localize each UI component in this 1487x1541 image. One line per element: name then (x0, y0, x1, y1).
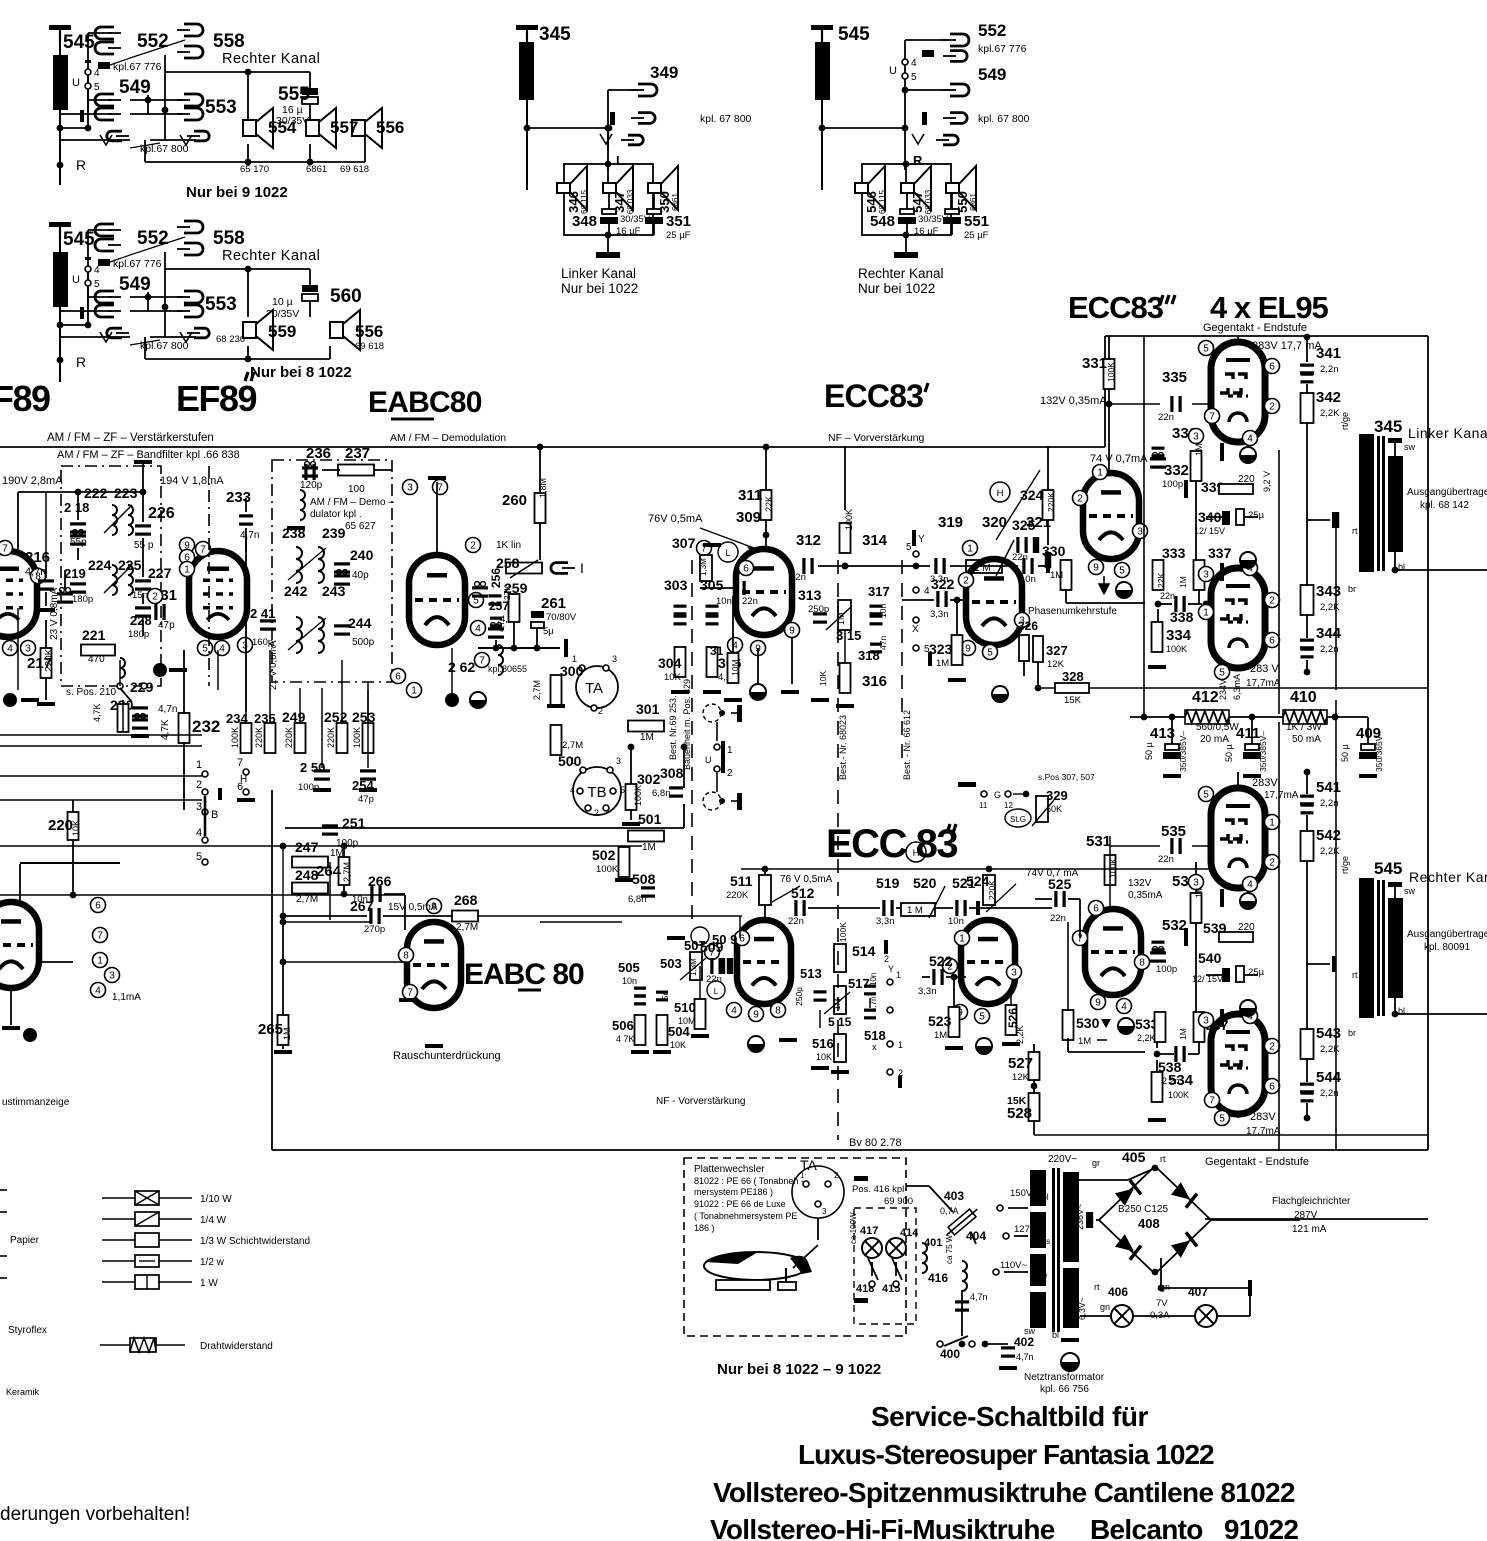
svg-text:1: 1 (967, 544, 973, 555)
svg-text:sw: sw (1404, 886, 1416, 896)
svg-text:316: 316 (862, 673, 887, 690)
svg-text:4,7n: 4,7n (240, 530, 259, 541)
svg-text:Best. - Nr. 66 612: Best. - Nr. 66 612 (902, 710, 912, 780)
svg-text:3,3n: 3,3n (876, 916, 895, 927)
svg-text:25 µF: 25 µF (666, 230, 691, 241)
svg-text:10K: 10K (664, 672, 682, 683)
svg-text:sw: sw (1024, 1326, 1036, 1336)
svg-text:186 ): 186 ) (694, 1223, 715, 1233)
svg-text:3: 3 (109, 971, 115, 982)
svg-text:68 236: 68 236 (216, 334, 245, 345)
svg-text:8: 8 (775, 1006, 781, 1017)
svg-text:s. Pos. 210: s. Pos. 210 (66, 687, 116, 698)
svg-text:3: 3 (1193, 432, 1199, 443)
svg-text:Service-Schaltbild für: Service-Schaltbild für (871, 1401, 1148, 1432)
svg-text:250p: 250p (794, 987, 804, 1006)
svg-text:1,1mA: 1,1mA (112, 992, 141, 1003)
svg-text:4: 4 (475, 624, 481, 635)
svg-text:194 V 1,8mA: 194 V 1,8mA (160, 475, 224, 487)
svg-text:514: 514 (852, 943, 876, 959)
svg-text:225: 225 (118, 557, 142, 573)
svg-text:AM / FM – Demodulation: AM / FM – Demodulation (390, 432, 506, 444)
svg-text:rt: rt (1160, 1154, 1166, 1164)
svg-text:558: 558 (213, 31, 245, 52)
svg-text:228: 228 (130, 613, 152, 628)
svg-text:4,7K: 4,7K (92, 703, 102, 722)
svg-text:5: 5 (979, 1012, 985, 1023)
svg-text:220K: 220K (284, 727, 294, 748)
svg-text:H: H (997, 488, 1004, 499)
svg-text:27K: 27K (502, 585, 512, 600)
svg-text:283V: 283V (1252, 777, 1278, 789)
svg-text:7: 7 (2, 544, 8, 555)
svg-text:St.G: St.G (1010, 815, 1026, 824)
svg-text:1: 1 (570, 756, 575, 766)
svg-text:3: 3 (616, 756, 621, 766)
svg-text:327: 327 (1046, 643, 1068, 658)
svg-text:68 033: 68 033 (626, 189, 635, 214)
svg-text:7: 7 (237, 757, 243, 769)
svg-text:Nur bei 1022: Nur bei 1022 (561, 281, 638, 296)
svg-text:417: 417 (860, 1225, 878, 1237)
svg-text:340: 340 (1198, 509, 1222, 525)
svg-text:1M: 1M (640, 732, 654, 743)
svg-text:rt: rt (1094, 1282, 1100, 1292)
svg-text:2: 2 (1269, 596, 1275, 607)
svg-text:22n: 22n (1158, 854, 1174, 865)
svg-text:17,7mA: 17,7mA (1264, 790, 1299, 801)
svg-text:317: 317 (868, 584, 890, 599)
svg-text:7: 7 (1209, 1096, 1215, 1107)
svg-text:10K: 10K (818, 671, 828, 686)
svg-text:6: 6 (95, 901, 101, 912)
svg-text:219: 219 (64, 566, 86, 581)
svg-text:560/0,5W: 560/0,5W (1196, 722, 1239, 733)
svg-text:6,8n: 6,8n (628, 894, 647, 905)
svg-text:5: 5 (94, 279, 100, 290)
svg-text:351: 351 (666, 213, 691, 230)
svg-text:1: 1 (196, 759, 202, 771)
svg-text:5 15: 5 15 (828, 1015, 852, 1029)
svg-text:6: 6 (743, 564, 749, 575)
svg-text:9: 9 (965, 644, 971, 655)
svg-text:220: 220 (48, 817, 73, 834)
svg-text:H: H (913, 848, 920, 859)
svg-text:120p: 120p (300, 480, 323, 491)
svg-text:12K: 12K (1012, 1072, 1030, 1083)
svg-text:TA: TA (585, 680, 603, 697)
svg-text:345: 345 (539, 24, 571, 45)
svg-text:4: 4 (94, 68, 100, 79)
svg-text:541: 541 (1316, 779, 1341, 796)
svg-text:rt: rt (1352, 970, 1358, 980)
svg-text:6: 6 (1269, 362, 1275, 373)
svg-text:ws: ws (1039, 1236, 1050, 1246)
svg-text:237: 237 (345, 445, 370, 462)
svg-text:247: 247 (295, 839, 319, 855)
svg-text:1: 1 (727, 745, 733, 756)
svg-text:22n: 22n (1012, 552, 1028, 563)
svg-text:4: 4 (219, 644, 225, 655)
svg-text:2,2K: 2,2K (1320, 602, 1340, 613)
svg-text:ECC83: ECC83 (824, 378, 923, 414)
svg-text:4: 4 (570, 785, 575, 795)
svg-text:4,7n: 4,7n (497, 616, 506, 632)
svg-text:L: L (725, 548, 730, 558)
svg-text:264: 264 (316, 863, 342, 880)
svg-text:3,3n: 3,3n (918, 986, 937, 997)
svg-text:326: 326 (1018, 619, 1038, 633)
svg-text:1/4 W: 1/4 W (200, 1215, 227, 1226)
svg-text:527: 527 (1008, 1055, 1033, 1072)
svg-text:314: 314 (862, 532, 888, 549)
svg-text:Flachgleichrichter: Flachgleichrichter (1272, 1196, 1351, 1207)
svg-text:0,7A: 0,7A (940, 1206, 959, 1216)
svg-text:242: 242 (284, 583, 308, 599)
svg-text:532: 532 (1162, 917, 1187, 934)
svg-text:5: 5 (906, 542, 912, 553)
svg-text:522: 522 (929, 953, 953, 969)
svg-text:Luxus-Stereosuper Fantasia 102: Luxus-Stereosuper Fantasia 1022 (798, 1439, 1214, 1470)
svg-text:350/365V–: 350/365V– (1374, 731, 1384, 772)
svg-text:403: 403 (944, 1189, 964, 1203)
svg-text:9: 9 (753, 1010, 759, 1021)
svg-text:503: 503 (660, 956, 682, 971)
svg-text:68 033: 68 033 (924, 189, 933, 214)
svg-text:70/80V: 70/80V (546, 612, 577, 623)
svg-text:16 µF: 16 µF (914, 226, 939, 237)
svg-text:100p: 100p (1162, 479, 1183, 490)
svg-text:25 µF: 25 µF (964, 230, 989, 241)
svg-text:4,7n: 4,7n (158, 704, 177, 715)
svg-text:348: 348 (572, 213, 597, 230)
svg-text:6,8n: 6,8n (652, 788, 671, 799)
svg-text:410: 410 (1290, 689, 1317, 706)
svg-text:Gegentakt - Endstufe: Gegentakt - Endstufe (1205, 1156, 1309, 1168)
svg-text:ECC 83: ECC 83 (826, 822, 957, 866)
svg-text:Best. Nr.69 253.: Best. Nr.69 253. (668, 695, 678, 760)
svg-text:1K / 3W: 1K / 3W (1286, 722, 1322, 733)
svg-text:1: 1 (411, 686, 417, 697)
svg-text:100K: 100K (1168, 1090, 1189, 1100)
svg-text:rt/ge: rt/ge (1340, 856, 1350, 874)
svg-text:30/35V: 30/35V (620, 214, 651, 225)
svg-text:25µ: 25µ (1248, 967, 1265, 978)
svg-text:EABC 80: EABC 80 (464, 958, 584, 991)
svg-text:520: 520 (913, 875, 937, 891)
svg-text:5: 5 (1219, 1114, 1225, 1125)
svg-text:220K: 220K (987, 880, 997, 900)
svg-text:2 41: 2 41 (250, 606, 275, 621)
svg-text:257: 257 (489, 599, 509, 613)
svg-text:3 15: 3 15 (836, 628, 861, 643)
svg-text:br: br (1348, 584, 1356, 594)
svg-text:332: 332 (1164, 462, 1189, 479)
svg-text:2: 2 (963, 576, 969, 587)
svg-text:5: 5 (1219, 668, 1225, 679)
svg-text:6861: 6861 (306, 164, 327, 175)
svg-text:2,7M: 2,7M (342, 862, 352, 882)
svg-text:551: 551 (964, 213, 989, 230)
svg-text:kpl.67 776: kpl.67 776 (113, 258, 162, 270)
svg-text:504: 504 (668, 1024, 690, 1039)
svg-text:2,2K: 2,2K (1320, 1044, 1340, 1055)
svg-text:544: 544 (1316, 1069, 1342, 1086)
svg-text:253: 253 (352, 709, 376, 725)
svg-text:308: 308 (660, 765, 684, 781)
svg-text:68 115: 68 115 (878, 190, 887, 214)
svg-text:ca 100W: ca 100W (849, 1212, 858, 1244)
svg-text:Gegentakt - Endstufe: Gegentakt - Endstufe (1203, 322, 1307, 334)
svg-text:404: 404 (966, 1229, 986, 1243)
svg-text:1/10 W: 1/10 W (200, 1194, 232, 1205)
svg-text:1: 1 (1269, 818, 1275, 829)
svg-text:470: 470 (88, 654, 105, 665)
svg-text:4: 4 (196, 827, 202, 839)
svg-text:268: 268 (454, 892, 478, 908)
svg-text:50 9: 50 9 (712, 932, 737, 947)
svg-text:2: 2 (598, 706, 603, 716)
svg-text:303: 303 (664, 577, 688, 593)
svg-text:556: 556 (355, 322, 383, 341)
svg-text:309: 309 (736, 509, 761, 526)
svg-text:Y: Y (888, 964, 894, 974)
svg-text:22n: 22n (1050, 913, 1066, 924)
svg-text:bl: bl (1042, 1192, 1049, 1202)
svg-text:7: 7 (97, 931, 103, 942)
svg-text:531: 531 (1086, 833, 1111, 850)
svg-text:508: 508 (632, 871, 656, 887)
svg-text:10 µ: 10 µ (272, 296, 293, 308)
svg-text:252: 252 (324, 709, 348, 725)
svg-text:Drahtwiderstand: Drahtwiderstand (200, 1341, 273, 1352)
svg-text:15K: 15K (1064, 695, 1082, 706)
svg-text:556: 556 (376, 118, 404, 137)
svg-text:121 mA: 121 mA (1292, 1224, 1327, 1235)
svg-text:2: 2 (196, 779, 202, 791)
svg-text:4,7K: 4,7K (160, 719, 171, 740)
svg-text:555: 555 (278, 84, 310, 105)
svg-text:kpl.67 776: kpl.67 776 (978, 43, 1027, 55)
svg-text:dulator kpl .: dulator kpl . (310, 509, 362, 520)
svg-text:7: 7 (437, 483, 443, 494)
svg-text:402: 402 (1014, 1335, 1034, 1349)
svg-text:1/2 w: 1/2 w (200, 1257, 225, 1268)
svg-text:Keramik: Keramik (6, 1387, 40, 1397)
svg-text:7: 7 (479, 656, 485, 667)
svg-text:100K: 100K (596, 864, 619, 875)
svg-text:1K lin: 1K lin (496, 540, 521, 551)
svg-text:100K: 100K (838, 922, 848, 942)
svg-text:5: 5 (1203, 790, 1209, 801)
svg-text:220K: 220K (254, 727, 264, 748)
svg-text:4 7K: 4 7K (616, 1034, 635, 1044)
svg-text:238: 238 (282, 525, 306, 541)
svg-text:543: 543 (1316, 1025, 1341, 1042)
svg-text:2,7M: 2,7M (456, 922, 478, 933)
svg-text:322: 322 (931, 576, 955, 592)
svg-text:341: 341 (1316, 345, 1341, 362)
svg-text:3: 3 (822, 1207, 827, 1216)
svg-text:4: 4 (95, 986, 101, 997)
svg-text:3: 3 (1203, 1016, 1209, 1027)
svg-text:ge: ge (1038, 1270, 1048, 1280)
svg-text:65 170: 65 170 (240, 164, 269, 175)
svg-text:5: 5 (1119, 566, 1125, 577)
svg-text:3,3n: 3,3n (930, 609, 949, 620)
svg-text:Ausgangübertrager: Ausgangübertrager (1407, 487, 1487, 498)
svg-text:1: 1 (898, 1040, 903, 1050)
svg-text:U: U (72, 274, 80, 286)
svg-text:266: 266 (368, 873, 392, 889)
svg-text:545: 545 (63, 32, 95, 53)
svg-text:401: 401 (924, 1237, 942, 1249)
svg-text:318: 318 (858, 648, 880, 663)
svg-text:1M: 1M (1050, 570, 1063, 581)
svg-text:160p: 160p (252, 637, 273, 648)
svg-text:kpl. 68 142: kpl. 68 142 (1420, 500, 1469, 511)
svg-text:31: 31 (710, 644, 724, 658)
svg-text:501: 501 (638, 811, 662, 827)
svg-text:sw: sw (1404, 442, 1416, 452)
svg-text:240: 240 (350, 547, 374, 563)
svg-text:220K: 220K (726, 890, 749, 901)
svg-text:4: 4 (94, 265, 100, 276)
svg-text:220K: 220K (1046, 492, 1056, 512)
svg-text:506: 506 (612, 1018, 634, 1033)
svg-text:22n: 22n (1160, 591, 1175, 601)
svg-text:65 627: 65 627 (345, 521, 376, 532)
svg-text:234: 234 (226, 711, 248, 726)
svg-text:40p: 40p (352, 570, 369, 581)
svg-text:EABC80: EABC80 (368, 386, 482, 419)
svg-text:Plattenwechsler: Plattenwechsler (694, 1164, 765, 1175)
svg-text:224: 224 (88, 557, 112, 573)
svg-text:220: 220 (1238, 922, 1255, 933)
svg-text:6861: 6861 (671, 193, 680, 211)
svg-text:540: 540 (1198, 950, 1222, 966)
svg-text:412: 412 (1192, 689, 1219, 706)
svg-text:X: X (912, 624, 919, 635)
svg-text:30/35V: 30/35V (918, 214, 949, 225)
svg-text:Ausgangübertrager: Ausgangübertrager (1407, 929, 1487, 940)
svg-text:244: 244 (348, 615, 372, 631)
svg-text:Nur bei 8 1022: Nur bei 8 1022 (250, 364, 352, 381)
svg-text:342: 342 (1316, 389, 1341, 406)
svg-text:405: 405 (1122, 1149, 1146, 1165)
svg-text:I: I (580, 560, 584, 576)
svg-text:U: U (889, 65, 897, 77)
svg-text:10n: 10n (622, 976, 637, 986)
svg-text:10n: 10n (869, 973, 878, 986)
svg-text:ca 75 W: ca 75 W (945, 1234, 954, 1264)
svg-text:5: 5 (94, 82, 100, 93)
svg-text:8: 8 (1139, 958, 1145, 969)
svg-text:5: 5 (987, 648, 993, 659)
svg-text:kpl.67 776: kpl.67 776 (113, 61, 162, 73)
svg-text:100K: 100K (352, 727, 362, 748)
svg-text:1M: 1M (1194, 443, 1204, 456)
svg-text:TB: TB (587, 784, 606, 801)
svg-text:313: 313 (798, 587, 822, 603)
svg-text:F89: F89 (0, 378, 50, 419)
svg-text:552: 552 (978, 21, 1006, 40)
svg-text:283 V: 283 V (1250, 663, 1279, 675)
svg-text:47p: 47p (158, 620, 175, 631)
svg-text:552: 552 (137, 228, 169, 249)
svg-text:3: 3 (1203, 570, 1209, 581)
svg-text:337: 337 (1208, 545, 1232, 561)
svg-text:Rechter Kanal: Rechter Kanal (858, 266, 944, 281)
svg-text:22n: 22n (788, 916, 804, 927)
svg-text:557: 557 (330, 118, 358, 137)
svg-text:kpl. 66 756: kpl. 66 756 (1040, 1384, 1089, 1395)
svg-text:x: x (872, 1042, 877, 1052)
svg-text:kpl.80655: kpl.80655 (488, 664, 527, 674)
svg-text:283V: 283V (1250, 1111, 1276, 1123)
svg-text:8: 8 (403, 951, 409, 962)
svg-text:1: 1 (896, 970, 901, 980)
svg-text:1: 1 (97, 956, 103, 967)
svg-text:346: 346 (566, 191, 581, 213)
svg-text:526: 526 (1006, 1008, 1020, 1028)
svg-text:Papier: Papier (10, 1235, 40, 1246)
svg-text:2: 2 (727, 768, 733, 779)
svg-text:334: 334 (1166, 627, 1192, 644)
svg-text:100K: 100K (844, 509, 854, 530)
svg-text:324: 324 (1020, 487, 1044, 503)
svg-text:1,3M: 1,3M (689, 958, 698, 976)
svg-text:2: 2 (834, 1171, 839, 1180)
svg-text:7: 7 (407, 988, 413, 999)
svg-text:4: 4 (1121, 1002, 1127, 1013)
svg-text:10M: 10M (730, 659, 740, 676)
svg-text:11: 11 (979, 801, 988, 810)
svg-text:50 µ: 50 µ (1224, 744, 1234, 762)
svg-text:232: 232 (192, 717, 220, 736)
svg-text:1M: 1M (642, 842, 656, 853)
svg-text:10n: 10n (716, 596, 732, 607)
svg-text:350/385V–: 350/385V– (1258, 731, 1268, 772)
svg-text:545: 545 (1374, 859, 1402, 878)
svg-text:505: 505 (618, 960, 640, 975)
svg-text:9,2 V: 9,2 V (1262, 471, 1272, 492)
svg-text:3: 3 (196, 801, 202, 813)
svg-text:534: 534 (1168, 1072, 1194, 1089)
svg-text:180p: 180p (128, 629, 149, 640)
svg-text:558: 558 (213, 228, 245, 249)
svg-text:3: 3 (1193, 878, 1199, 889)
svg-text:1 M: 1 M (907, 905, 923, 916)
svg-text:1M: 1M (1078, 1036, 1091, 1047)
svg-text:2,7M: 2,7M (532, 680, 542, 700)
svg-text:1: 1 (1203, 608, 1209, 619)
svg-text:76 V 0,5mA: 76 V 0,5mA (780, 874, 833, 885)
svg-text:220K: 220K (44, 648, 55, 672)
svg-text:Nur bei 9 1022: Nur bei 9 1022 (186, 184, 288, 201)
svg-text:100K: 100K (633, 785, 643, 806)
svg-text:2: 2 (884, 954, 889, 964)
svg-text:12/ 15V: 12/ 15V (1194, 526, 1225, 536)
svg-text:50 µ: 50 µ (1340, 744, 1350, 762)
svg-text:kpl. 80091: kpl. 80091 (1424, 942, 1471, 953)
svg-text:22n: 22n (1158, 412, 1174, 423)
svg-text:3: 3 (1137, 527, 1143, 538)
svg-text:2: 2 (594, 808, 599, 818)
svg-text:7V: 7V (1156, 1298, 1168, 1309)
svg-text:6: 6 (1269, 636, 1275, 647)
svg-text:502: 502 (592, 847, 616, 863)
